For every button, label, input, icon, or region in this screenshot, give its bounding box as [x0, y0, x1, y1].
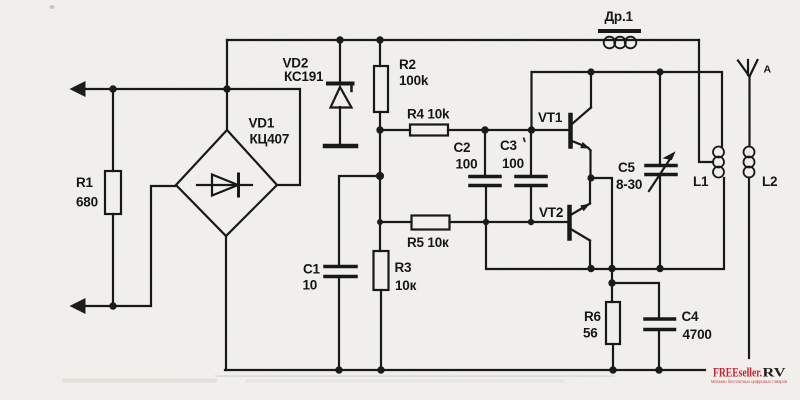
node: bridge top feed crossing: [223, 85, 230, 92]
label C1: [303, 262, 321, 293]
svg-text:L2: L2: [762, 174, 777, 189]
label VD1: [249, 116, 290, 147]
node: C5 bottom: [656, 265, 663, 272]
svg-text:R6: R6: [584, 309, 602, 324]
svg-text:VT1: VT1: [538, 110, 563, 125]
label L2: [762, 174, 777, 189]
label C4: [682, 309, 712, 342]
node: R5 branch: [377, 219, 383, 225]
variable capacitor C5: [646, 72, 676, 268]
node: C4 bottom: [655, 366, 662, 373]
diode inside VD1: [197, 174, 252, 196]
svg-text:R3: R3: [395, 260, 413, 275]
label C2: [454, 140, 478, 172]
svg-text:680: 680: [76, 195, 98, 210]
wire: vertical from top rail to bridge top: [226, 40, 228, 130]
node: R1 top junction: [109, 85, 116, 92]
wire: feedback line: [486, 178, 724, 269]
resistor R2: [374, 66, 388, 112]
svg-text:FREEseller.: FREEseller.: [713, 365, 762, 380]
label R5: [407, 235, 449, 250]
choke Dr.1 windings: [604, 37, 637, 49]
wire: C1 bottom lead: [338, 277, 340, 371]
label R3: [395, 260, 417, 293]
resistor R6: [606, 302, 620, 344]
svg-text:R5 10к: R5 10к: [407, 235, 449, 250]
svg-text:10: 10: [303, 278, 318, 293]
svg-text:L1: L1: [693, 174, 709, 189]
wire: R1 top lead: [112, 89, 114, 171]
svg-text:100: 100: [502, 156, 524, 171]
node: R4 branch: [376, 126, 383, 133]
svg-text:КЦ407: КЦ407: [250, 132, 290, 147]
svg-text:C4: C4: [682, 309, 700, 324]
label VT2: [539, 205, 563, 220]
svg-text:VT2: VT2: [539, 205, 563, 220]
svg-text:C2: C2: [454, 140, 471, 155]
wire: bottom arrow line (AC input lower): [84, 186, 176, 306]
label Dr.1: [605, 9, 634, 24]
node: R3 bottom: [377, 366, 384, 373]
inductor L1: [713, 147, 724, 178]
resistor R5: [412, 216, 450, 230]
VD2 bottom plate bar: [325, 144, 356, 149]
resistor R3: [374, 251, 389, 290]
node: output on feedback line: [608, 265, 615, 272]
label R6: [583, 309, 602, 341]
node: C5 top: [656, 68, 663, 75]
label R2: [399, 57, 429, 88]
svg-text:Др.1: Др.1: [605, 9, 634, 24]
inductor L2: [744, 147, 755, 178]
logo FREEseller.RV: [711, 365, 788, 385]
node: VT2 emitter bottom: [587, 265, 594, 272]
wire: R1 bottom lead: [112, 214, 114, 306]
svg-text:8-30: 8-30: [616, 177, 642, 192]
antenna A: [738, 60, 758, 146]
label A (antenna): [764, 64, 772, 76]
scan speck top-left: [50, 5, 55, 9]
node: R1 bottom junction: [109, 302, 116, 309]
wire: R5 to VT2 base: [450, 221, 569, 223]
svg-text:100k: 100k: [399, 73, 429, 88]
bridge rectifier VD1 (diamond): [176, 130, 277, 236]
svg-text:10к: 10к: [395, 278, 417, 293]
zener diode VD2: [328, 40, 353, 143]
wire: C4 bottom lead: [658, 330, 660, 371]
arrow lower-left input: [70, 298, 86, 314]
wire: R2/R3 vertical branch: [380, 40, 381, 370]
capacitor C1: [325, 267, 356, 277]
wire: R5 base line: [380, 221, 412, 223]
capacitor C2: [470, 130, 500, 222]
wire: L2 bottom lead: [748, 178, 750, 359]
wire: base line VT1 left: [380, 129, 410, 131]
wire: base line VT1 right: [448, 129, 569, 131]
svg-text:КС191: КС191: [284, 69, 324, 84]
wire: R6-C4 link: [612, 283, 659, 319]
label R1: [76, 175, 98, 210]
wire: VT collector rail (second rail): [532, 72, 723, 146]
svg-text:100: 100: [456, 157, 478, 172]
node: feedback to R5 line: [483, 219, 489, 225]
svg-text:4700: 4700: [683, 327, 712, 342]
capacitor C3: [516, 130, 546, 222]
svg-text:C1: C1: [303, 262, 321, 277]
svg-text:56: 56: [583, 326, 598, 341]
transistor VT1: [571, 72, 592, 178]
node: R6/C4 branch: [608, 279, 615, 286]
label L1: [693, 174, 709, 189]
label C3: [500, 138, 524, 171]
wire: top arrow line (AC input upper): [84, 89, 300, 185]
node: VT1 emitter / VT2 collector: [587, 174, 594, 181]
label C3 prime tick: [524, 138, 526, 143]
resistor R1: [105, 171, 121, 214]
wire: top supply rail: [227, 39, 699, 41]
label VT1: [538, 110, 563, 125]
svg-text:R4 10k: R4 10k: [407, 107, 450, 122]
label C5: [616, 160, 642, 192]
label R4: [407, 107, 450, 122]
scan smudge bottom: [62, 375, 615, 382]
node: R2 top: [376, 36, 383, 43]
transistor VT2: [570, 179, 591, 269]
node: R6 bottom: [609, 366, 616, 373]
wire: output node to R6: [591, 178, 612, 302]
wire: bridge bottom to ground bus: [225, 236, 227, 370]
node: C3 bottom: [528, 219, 534, 225]
node: C1 branch: [376, 172, 384, 180]
label VD2: [283, 56, 325, 85]
capacitor C4: [645, 319, 675, 330]
svg-text:VD1: VD1: [249, 116, 275, 131]
node: C3 top / rail drop: [528, 126, 535, 133]
wire: R6 bottom lead: [612, 344, 614, 370]
svg-text:RV: RV: [763, 365, 787, 380]
node: VD2 top: [336, 36, 343, 43]
wire: ground bus: [225, 369, 705, 371]
svg-text:Магазин бесплатных цифровых то: Магазин бесплатных цифровых товаров: [711, 379, 788, 384]
svg-text:R2: R2: [399, 57, 416, 72]
wire: C1 top link: [339, 176, 380, 266]
svg-text:R1: R1: [76, 175, 94, 190]
wire: top rail drop to L1 tap: [699, 40, 713, 162]
arrow upper-left input: [70, 81, 86, 97]
node: C1 bottom: [335, 366, 342, 373]
node: C2 top: [481, 126, 488, 133]
resistor R4: [410, 125, 448, 136]
svg-text:C3: C3: [500, 138, 518, 153]
node: VT1 collector top: [587, 68, 594, 75]
choke Dr.1 core bar: [600, 29, 639, 33]
svg-text:A: A: [764, 64, 772, 76]
svg-text:C5: C5: [618, 160, 636, 175]
